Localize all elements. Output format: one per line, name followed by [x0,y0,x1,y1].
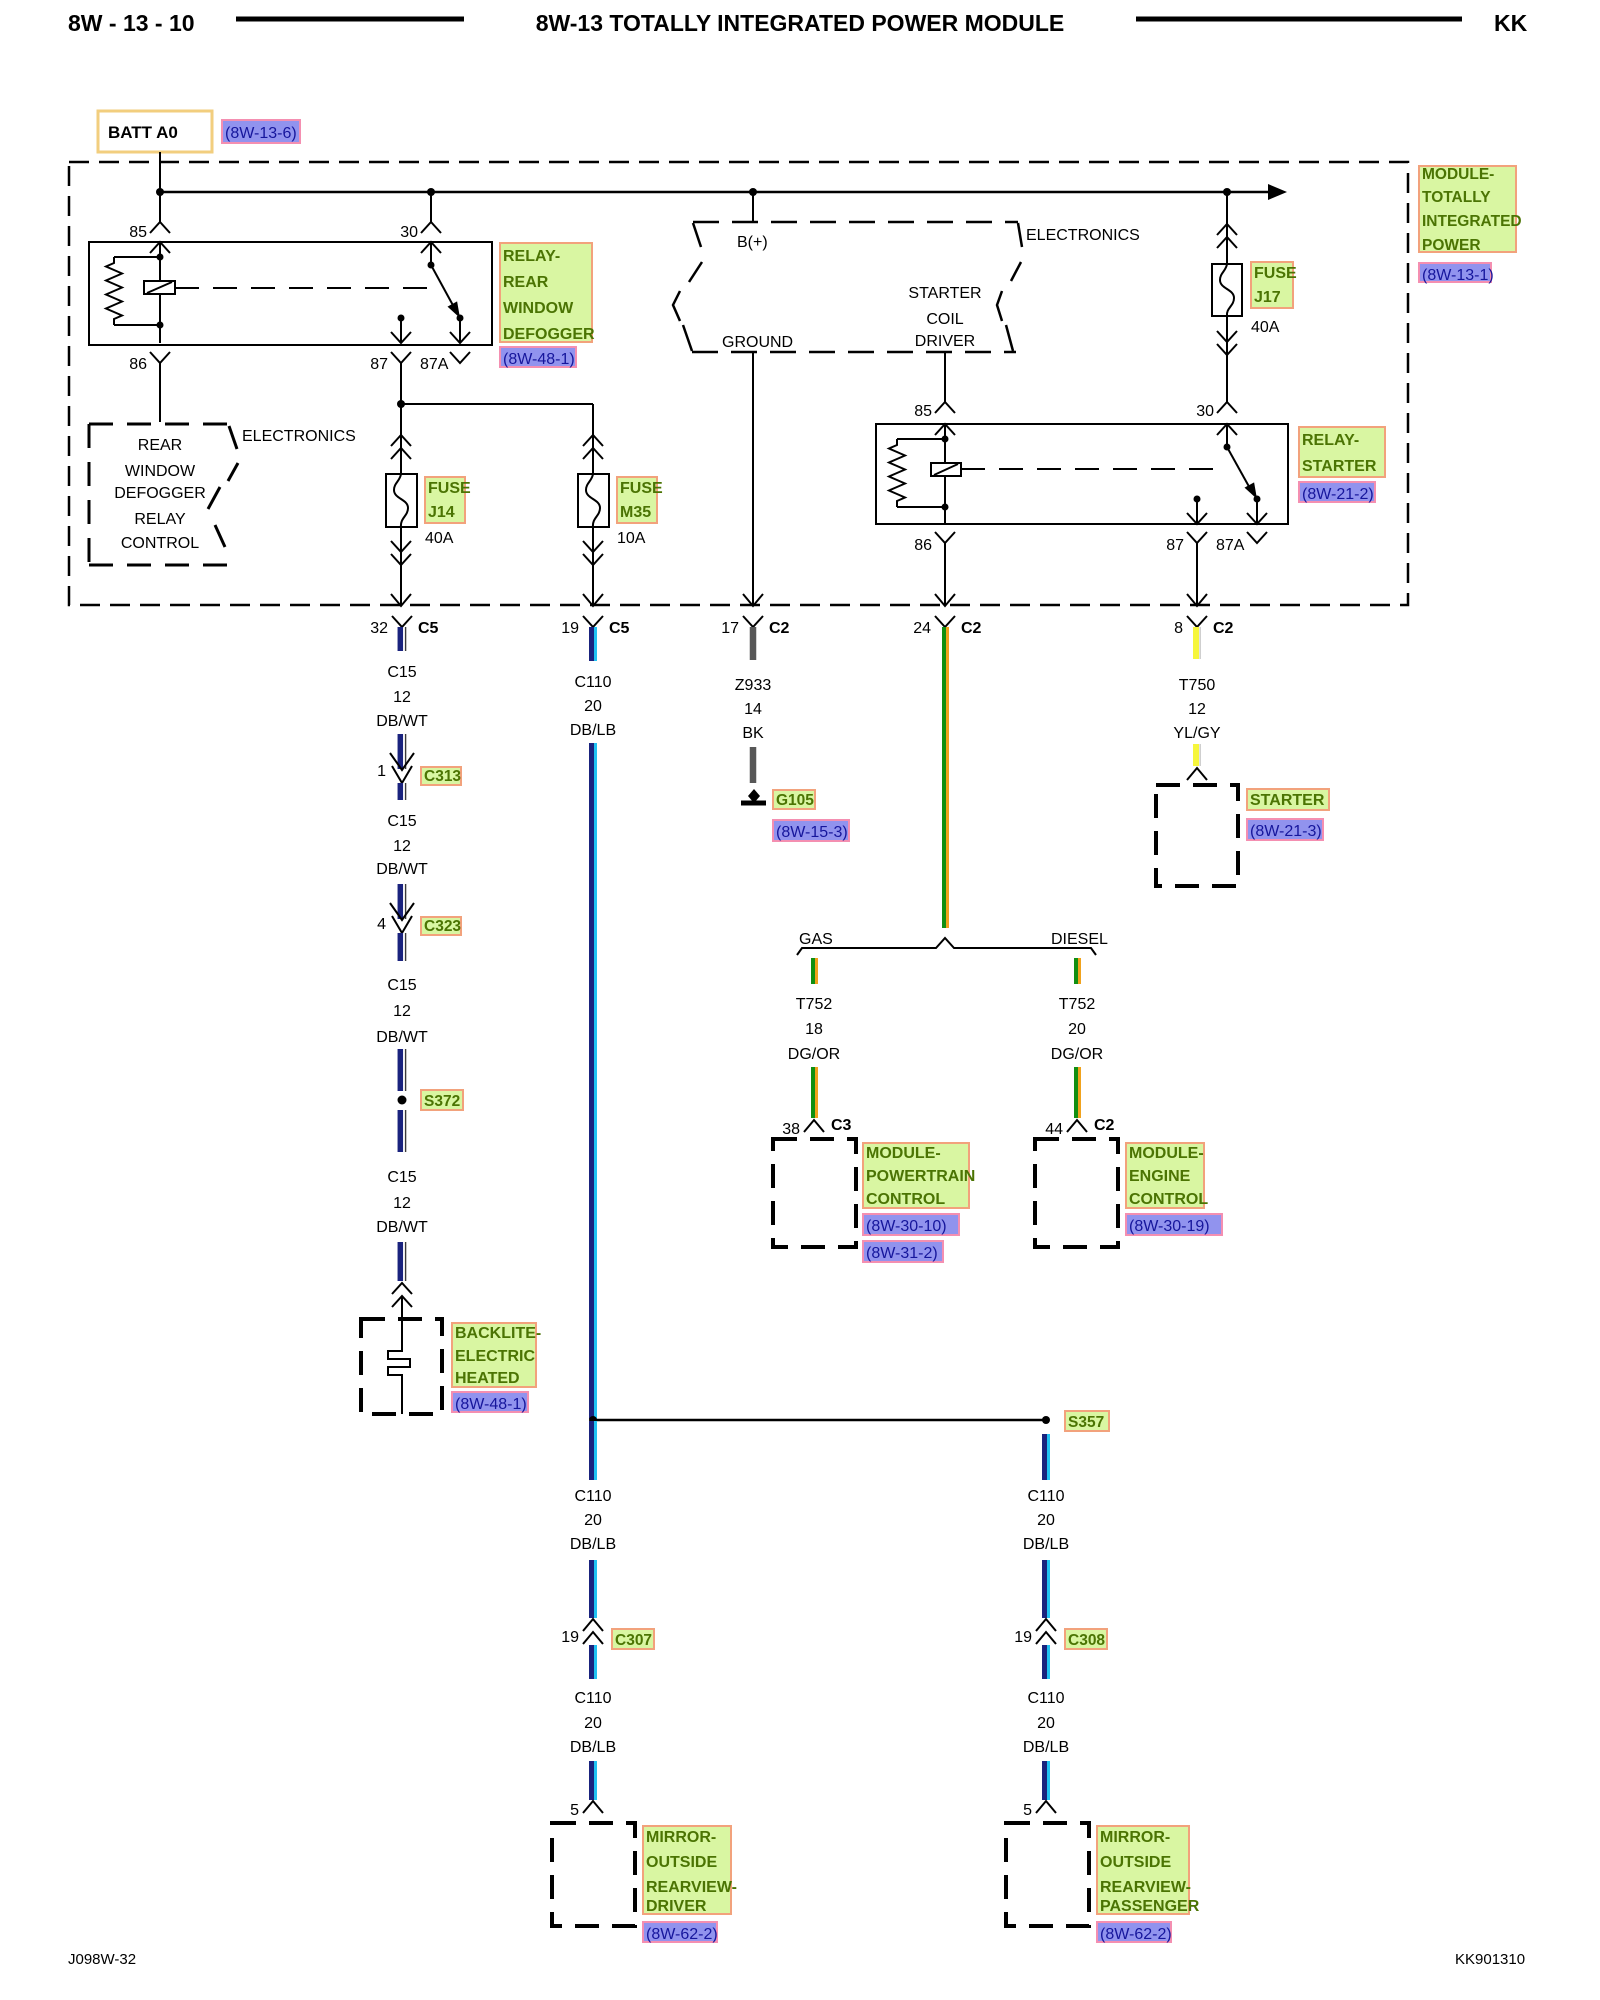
label MIRROR-OUTSIDE REARVIEW-DRIVER [643,1826,731,1914]
wire stub to relay coil 85 [159,192,161,222]
reference label (8W-15-3) [773,820,849,841]
svg-text:1: 1 [377,763,386,780]
wire C110 20 DB/LB below splice [589,1421,594,1480]
wire: starter coil driver lead [944,352,946,402]
svg-text:5: 5 [570,1802,579,1819]
svg-text:PASSENGER: PASSENGER [1100,1898,1200,1915]
svg-text:19: 19 [1014,1629,1032,1646]
svg-text:12: 12 [393,1195,411,1212]
label STARTER [1247,789,1329,810]
gas/diesel split bracket [797,938,1096,955]
svg-text:87A: 87A [420,356,449,373]
wire below fuse J17 [1226,316,1228,402]
label FUSE J14 [425,477,465,523]
svg-text:DB/LB: DB/LB [570,722,616,739]
fuse M35 [578,474,609,527]
svg-text:DB/LB: DB/LB [570,1536,616,1553]
svg-text:30: 30 [1196,403,1214,420]
svg-text:M35: M35 [620,504,651,521]
wire C15 12 DB/WT segment 5 [398,933,404,961]
terminal 30 (relay-rear window defogger) [421,222,441,233]
svg-text:B(+): B(+) [737,234,768,251]
svg-text:85: 85 [129,224,147,241]
inline connection chevrons [1217,224,1237,235]
relay K1 pin 87A internal [459,318,461,343]
label MODULE-ENGINE CONTROL [1126,1143,1204,1208]
svg-text:17: 17 [721,620,739,637]
svg-text:MIRROR-: MIRROR- [1100,1829,1170,1846]
wire C110 20 DB/LB segment [1042,1560,1047,1618]
svg-text:(8W-31-2): (8W-31-2) [866,1245,938,1262]
svg-text:OUTSIDE: OUTSIDE [1100,1854,1171,1871]
svg-text:(8W-21-2): (8W-21-2) [1302,486,1374,503]
wire below fuse M35 [592,527,594,606]
svg-text:OUTSIDE: OUTSIDE [646,1854,717,1871]
connector pin 44 C2 [1067,1120,1087,1132]
svg-text:C110: C110 [574,1690,611,1707]
wire stub to relay contact 30 [430,192,432,222]
relay K1 coil symbol [144,281,175,294]
reference label (8W-13-6) [222,120,300,143]
svg-text:85: 85 [914,403,932,420]
svg-text:MODULE-: MODULE- [1129,1145,1204,1162]
svg-text:20: 20 [1037,1512,1055,1529]
reference label (8W-30-10) [863,1214,959,1235]
svg-text:C313: C313 [424,768,461,785]
relay K1 pin 87 internal [398,315,405,322]
connector to starter [1187,768,1207,780]
svg-text:(8W-48-1): (8W-48-1) [503,351,575,368]
label MIRROR-OUTSIDE REARVIEW-PASSENGER [1097,1826,1189,1914]
svg-text:DB/LB: DB/LB [1023,1739,1069,1756]
reference label (8W-31-2) [863,1241,943,1262]
relay K1 pin 30 internal [421,242,441,253]
svg-text:87: 87 [370,356,388,373]
svg-text:KK901310: KK901310 [1455,1951,1525,1968]
module - totally integrated power (TIPM) boundary [69,162,1408,605]
reference label (8W-48-1) [452,1392,528,1412]
component: module-engine control [1035,1139,1118,1247]
svg-text:DRIVER: DRIVER [646,1898,707,1915]
connector pin 24 C2 [935,616,955,627]
svg-text:(8W-48-1): (8W-48-1) [455,1396,527,1413]
inline connection chevrons M35 [583,435,603,446]
svg-text:DEFOGGER: DEFOGGER [503,326,595,343]
svg-text:87: 87 [1166,537,1184,554]
svg-text:DEFOGGER: DEFOGGER [114,485,206,502]
wire C110 20 DB/LB segment [1042,1761,1047,1800]
splice S357 [589,1416,597,1424]
label MODULE-TOTALLY INTEGRATED POWER [1419,166,1516,252]
svg-text:19: 19 [561,620,579,637]
terminal 30 (relay-starter) [1217,402,1237,413]
connector C308 pin 19 [1036,1619,1056,1631]
svg-text:20: 20 [1037,1715,1055,1732]
wire C15 12 DB/WT segment 2 [398,734,404,769]
svg-text:86: 86 [129,356,147,373]
wire C110 20 DB/LB segment [589,1645,594,1679]
svg-text:J17: J17 [1254,289,1281,306]
svg-text:T750: T750 [1179,677,1216,694]
svg-text:18: 18 [805,1021,823,1038]
svg-text:20: 20 [584,1512,602,1529]
svg-text:MODULE-: MODULE- [1422,166,1494,183]
relay K2 coil resistor [897,438,945,440]
relay K1 linkage [175,287,440,289]
svg-text:8: 8 [1174,620,1183,637]
label RELAY-STARTER [1299,427,1385,477]
svg-text:BK: BK [742,725,764,742]
svg-text:C2: C2 [961,620,982,637]
svg-text:12: 12 [393,838,411,855]
component: backlite-electric heated [361,1319,442,1414]
svg-text:8W-13 TOTALLY INTEGRATED POWER: 8W-13 TOTALLY INTEGRATED POWER MODULE [536,10,1065,36]
heater element [388,1345,410,1414]
svg-text:DB/WT: DB/WT [376,713,428,730]
terminal 85 (relay-rear window defogger) [150,222,170,233]
connector pin 5 mirror driver [583,1801,603,1813]
relay K2 switch blade [1227,447,1252,492]
svg-text:BACKLITE-: BACKLITE- [455,1325,541,1342]
svg-text:C15: C15 [387,813,416,830]
component: mirror-outside rearview-passenger [1006,1823,1089,1926]
node: junction of 87 feed [397,400,405,408]
svg-text:DB/WT: DB/WT [376,1219,428,1236]
wire C15 12 DB/WT segment 6 [398,1049,404,1091]
label RELAY-REAR WINDOW DEFOGGER [500,243,592,342]
svg-text:J14: J14 [428,504,455,521]
svg-text:CONTROL: CONTROL [866,1191,945,1208]
svg-text:C2: C2 [1094,1117,1115,1134]
svg-text:40A: 40A [425,530,454,547]
svg-text:12: 12 [393,689,411,706]
wire Z933 14 BK segment 1 [750,627,757,660]
svg-text:T752: T752 [796,996,833,1013]
svg-text:DIESEL: DIESEL [1051,931,1108,948]
connector C323 pin 4 [390,903,414,920]
relay K1 coil resistor [114,256,160,258]
svg-text:(8W-62-2): (8W-62-2) [1100,1926,1172,1943]
reference label (8W-21-2) [1299,482,1375,502]
label FUSE J17 [1251,262,1293,308]
relay K2 pin 87A internal [1256,499,1258,524]
connector pin 5 mirror passenger [1036,1801,1056,1813]
reference label (8W-21-3) [1247,819,1323,840]
connector C313 pin 1 [390,753,414,770]
svg-text:FUSE: FUSE [620,480,663,497]
relay K1 pin 85 internal [150,242,170,253]
reference label (8W-62-2) [1097,1922,1171,1942]
label BACKLITE-ELECTRIC HEATED [452,1323,536,1387]
wire Z933 14 BK segment 2 [750,747,757,783]
relay K1 coil wire [159,242,161,343]
svg-text:S357: S357 [1068,1414,1104,1431]
connector pin 32 C5 [392,616,412,627]
wire C15 12 DB/WT segment 3 [398,783,404,800]
svg-text:5: 5 [1023,1802,1032,1819]
svg-text:10A: 10A [617,530,646,547]
wire C110 20 DB/LB segment [589,1560,594,1618]
svg-text:RELAY-: RELAY- [1302,432,1359,449]
wire below fuse J14 [400,527,402,606]
svg-text:C5: C5 [609,620,630,637]
svg-text:KK: KK [1494,10,1528,36]
svg-text:CONTROL: CONTROL [1129,1191,1208,1208]
relay K2 coil wire [944,424,946,524]
relay K1 switch blade [431,265,455,309]
wire C110 20 DB/LB segment [589,1761,594,1800]
svg-text:C307: C307 [615,1632,652,1649]
svg-text:C110: C110 [574,674,611,691]
wire T752 DG/OR main [942,627,946,928]
svg-text:REARVIEW-: REARVIEW- [646,1879,737,1896]
connector pin 38 C3 [804,1120,824,1132]
svg-text:DB/WT: DB/WT [376,1029,428,1046]
svg-text:POWER: POWER [1422,237,1481,254]
svg-text:(8W-13-6): (8W-13-6) [225,125,297,142]
relay K2 pin 85 internal [935,424,955,435]
svg-text:12: 12 [1188,701,1206,718]
wire C15 12 DB/WT segment 1 [398,627,404,651]
wire C110 20 DB/LB segment [1042,1645,1047,1679]
svg-text:DG/OR: DG/OR [788,1046,840,1063]
svg-text:Z933: Z933 [735,677,772,694]
wire C110 20 DB/LB segment 1 [589,627,594,661]
wire T750 12 YL/GY segment 1 [1193,627,1199,659]
wire 86 to defogger relay control [159,363,161,422]
svg-text:4: 4 [377,916,386,933]
svg-text:DB/LB: DB/LB [570,1739,616,1756]
svg-text:12: 12 [393,1003,411,1020]
svg-text:C5: C5 [418,620,439,637]
svg-text:30: 30 [400,224,418,241]
svg-text:DRIVER: DRIVER [915,333,975,350]
svg-text:20: 20 [1068,1021,1086,1038]
svg-text:RELAY-: RELAY- [503,248,560,265]
svg-text:38: 38 [782,1121,800,1138]
junction [749,188,757,196]
svg-text:19: 19 [561,1629,579,1646]
svg-text:TOTALLY: TOTALLY [1422,189,1491,206]
svg-text:REARVIEW-: REARVIEW- [1100,1879,1191,1896]
connector pin 17 C2 [743,616,763,627]
svg-text:DB/WT: DB/WT [376,861,428,878]
terminal 85 (relay-starter) [935,402,955,413]
connector pin 8 C2 [1187,616,1207,627]
reference label (8W-13-1) [1419,263,1491,282]
svg-text:G105: G105 [776,792,814,809]
wire C15 12 DB/WT segment 4 [398,884,404,919]
svg-text:FUSE: FUSE [428,480,471,497]
svg-text:20: 20 [584,698,602,715]
svg-text:INTEGRATED: INTEGRATED [1422,213,1522,230]
connector C307 pin 19 [583,1619,603,1631]
svg-text:C110: C110 [1027,1488,1064,1505]
svg-text:C110: C110 [1027,1690,1064,1707]
svg-text:86: 86 [914,537,932,554]
svg-text:C3: C3 [831,1117,852,1134]
wire stub to fuse J17 [1226,192,1228,264]
svg-text:40A: 40A [1251,319,1280,336]
fuse J14 [386,474,417,527]
wire C110 20 DB/LB long segment [589,743,594,1419]
wire stub to electronics B(+) [752,192,754,222]
svg-text:S372: S372 [424,1093,460,1110]
fuse J17 [1212,264,1242,316]
svg-text:GAS: GAS [799,931,833,948]
splice S372 [398,1096,407,1105]
svg-text:YL/GY: YL/GY [1173,725,1220,742]
svg-text:24: 24 [913,620,931,637]
svg-text:ELECTRONICS: ELECTRONICS [242,428,356,445]
svg-text:FUSE: FUSE [1254,265,1297,282]
svg-text:STARTER: STARTER [1250,792,1325,809]
svg-text:J098W-32: J098W-32 [68,1951,136,1968]
relay K1 rear window defogger: case [89,242,492,345]
svg-text:C15: C15 [387,664,416,681]
relay K2 pin 87 internal [1194,496,1201,503]
svg-text:44: 44 [1045,1121,1063,1138]
svg-text:(8W-30-10): (8W-30-10) [866,1218,947,1235]
svg-text:(8W-13-1): (8W-13-1) [1422,267,1494,284]
svg-text:REAR: REAR [503,274,549,291]
svg-text:ENGINE: ENGINE [1129,1168,1191,1185]
wire C15 12 DB/WT segment 7 [398,1110,404,1152]
electronics block: rear window defogger relay control [89,423,229,426]
junction [156,188,164,196]
junction [1223,188,1231,196]
wire C15 12 DB/WT segment 8 [398,1242,404,1281]
svg-text:REAR: REAR [138,437,182,454]
svg-text:32: 32 [370,620,388,637]
reference label (8W-48-1) [500,347,576,367]
component: starter [1156,785,1238,886]
reference label (8W-62-2) [643,1922,717,1942]
relay K2 starter: case [876,424,1288,524]
inline connection chevrons [391,435,411,446]
wire C110 20 DB/LB passenger branch [1042,1434,1047,1480]
svg-text:T752: T752 [1059,996,1096,1013]
svg-text:COIL: COIL [926,311,963,328]
svg-text:BATT A0: BATT A0 [108,123,178,142]
wire to fuse J14 [400,404,402,474]
inline connection chevrons [392,1283,412,1294]
electronics block: B(+) / ground / starter coil driver [693,221,1018,224]
svg-text:ELECTRONICS: ELECTRONICS [1026,227,1140,244]
svg-text:CONTROL: CONTROL [121,535,199,552]
svg-text:DG/OR: DG/OR [1051,1046,1103,1063]
wire into backlite [401,1296,403,1345]
svg-text:(8W-21-3): (8W-21-3) [1250,823,1322,840]
svg-text:87A: 87A [1216,537,1245,554]
svg-text:(8W-62-2): (8W-62-2) [646,1926,718,1943]
svg-text:GROUND: GROUND [722,334,793,351]
svg-text:DB/LB: DB/LB [1023,1536,1069,1553]
svg-text:POWERTRAIN: POWERTRAIN [866,1168,975,1185]
svg-text:(8W-30-19): (8W-30-19) [1129,1218,1210,1235]
svg-text:WINDOW: WINDOW [503,300,574,317]
wire T750 12 YL/GY segment 2 [1193,744,1199,766]
svg-text:C308: C308 [1068,1632,1105,1649]
ground G105 [748,789,760,803]
svg-text:ELECTRIC: ELECTRIC [455,1348,535,1365]
label MODULE-POWERTRAIN CONTROL [863,1143,969,1208]
svg-text:20: 20 [584,1715,602,1732]
svg-text:C323: C323 [424,918,461,935]
connector pin 19 C5 [583,616,603,627]
wire: battery A0 bus [159,152,161,192]
svg-text:MODULE-: MODULE- [866,1145,941,1162]
node BATT A0 feed [98,111,212,152]
svg-text:STARTER: STARTER [1302,458,1377,475]
svg-text:14: 14 [744,701,762,718]
svg-text:(8W-15-3): (8W-15-3) [776,824,848,841]
junction [427,188,435,196]
label FUSE M35 [617,477,657,523]
svg-text:C2: C2 [769,620,790,637]
svg-text:8W - 13 - 10: 8W - 13 - 10 [68,10,195,36]
wire: ground lead inside TIPM [752,352,754,606]
component: module-powertrain control [773,1139,856,1247]
relay K2 coil symbol [931,463,961,476]
relay K2 linkage [961,468,1226,470]
wire to fuse M35 [401,403,593,405]
reference label (8W-30-19) [1126,1214,1222,1235]
wire T752 18 DG/OR gas branch [811,958,815,984]
svg-text:STARTER: STARTER [908,285,981,302]
svg-text:C15: C15 [387,1169,416,1186]
svg-text:C2: C2 [1213,620,1234,637]
svg-text:HEATED: HEATED [455,1370,520,1387]
relay K2 pin 30 internal [1217,424,1237,435]
wire T752 20 DG/OR diesel branch [1074,958,1078,984]
svg-text:MIRROR-: MIRROR- [646,1829,716,1846]
svg-text:RELAY: RELAY [134,511,186,528]
component: mirror-outside rearview-driver [552,1823,635,1926]
svg-text:WINDOW: WINDOW [125,463,196,480]
wire 87 down [400,363,402,404]
svg-text:C110: C110 [574,1488,611,1505]
svg-text:C15: C15 [387,977,416,994]
